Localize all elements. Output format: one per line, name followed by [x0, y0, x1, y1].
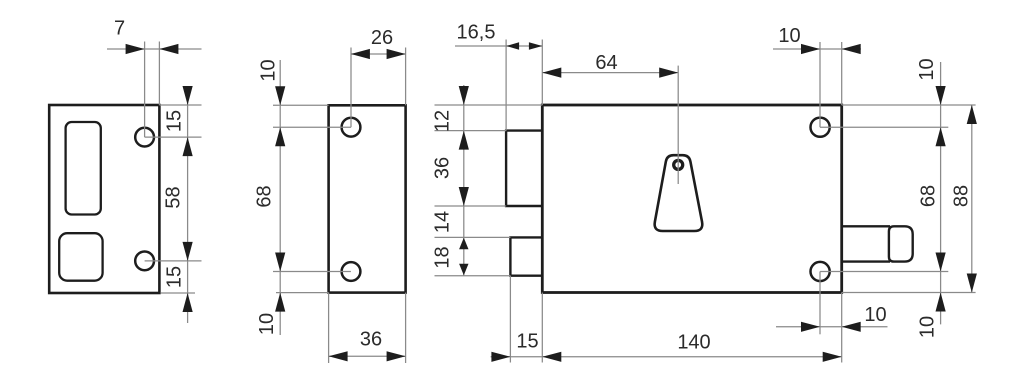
dim 7 dimension line [107, 48, 202, 50]
svg-text:88: 88 [950, 185, 972, 207]
svg-text:7: 7 [114, 18, 125, 40]
dim 7 extension line (hole axis) [144, 42, 146, 138]
latch bolt bottom edge [842, 260, 890, 262]
ext line box2 top edge [435, 236, 511, 238]
keyhole cam (bell shape) [655, 155, 703, 231]
dim 15 top arrowhead (down) [183, 86, 193, 105]
dim 7 arrowhead left [126, 44, 145, 54]
latch bolt head [889, 226, 913, 261]
svg-text:14: 14 [432, 211, 454, 233]
svg-text:12: 12 [432, 110, 454, 132]
dim 12 arrowhead down (case top) [459, 86, 469, 105]
dim 16,5 dimension line with tail [455, 45, 542, 47]
strike plate outline [49, 105, 159, 293]
dim 64 dimension line [542, 72, 678, 74]
dim 36 arrowhead down [459, 187, 469, 206]
svg-text:10: 10 [917, 316, 939, 338]
ext line lower hole centre [145, 260, 202, 262]
dim 64 extension line (cam axis) [677, 66, 679, 184]
svg-text:10: 10 [916, 58, 938, 80]
dim 10 bottom dimension line [776, 326, 888, 328]
dim 26 arrowhead right [387, 49, 406, 59]
follower box lower (left protrusion) [510, 237, 542, 275]
dim 16,5 extension line (box1 left edge) [505, 40, 507, 131]
svg-text:10: 10 [258, 59, 280, 81]
svg-text:36: 36 [432, 157, 454, 179]
svg-text:10: 10 [864, 304, 886, 326]
dim 7 extension line (plate right edge) [158, 42, 160, 106]
ext line case top edge [842, 104, 976, 106]
dim 36 dimension line [329, 355, 406, 357]
svg-text:58: 58 [163, 186, 185, 208]
ext line case bottom-right hole centre [820, 271, 948, 273]
svg-text:15: 15 [164, 110, 186, 132]
dim 68 arrowhead up [936, 127, 946, 146]
left chain dimension line (12/36/14/18) [463, 85, 465, 276]
dim 36 arrowhead left [329, 351, 348, 361]
dim 36 extension line left [328, 293, 330, 363]
dim 10 top-right extension line (hole axis) [819, 42, 821, 127]
svg-text:36: 36 [360, 329, 382, 351]
dim 16,5 arrowhead right [529, 42, 542, 49]
svg-text:64: 64 [595, 52, 617, 74]
dim 15 / 140 shared arrowhead [542, 352, 561, 362]
right inner chain dimension line [940, 62, 942, 324]
svg-text:10: 10 [778, 25, 800, 47]
dim 18 arrowhead down [459, 264, 468, 276]
dim 18 arrowhead up [459, 238, 468, 250]
dim 26 arrowhead left [351, 49, 370, 59]
dim 10 top-right dimension line [773, 48, 861, 50]
follower box upper (left protrusion) [506, 131, 542, 206]
dim 10 bottom arrowhead (up) [275, 293, 285, 312]
dim 88 arrowhead up [967, 105, 977, 124]
svg-text:26: 26 [371, 27, 393, 49]
case top-right mounting hole [811, 118, 830, 137]
ext line side plate lower hole centre [273, 271, 351, 273]
side plate lower hole [342, 262, 361, 281]
dim 15 bottom arrowhead (up) [183, 293, 193, 312]
ext line case top-right hole centre [820, 126, 948, 128]
left chain dimension line [279, 60, 281, 335]
dim 36 arrowhead right [387, 351, 406, 361]
dim 64 arrowhead right [659, 68, 678, 78]
ext line plate bottom edge [161, 292, 195, 294]
dim 10 bottom arrowhead left [801, 322, 820, 332]
bottom dimension line 15 and 140 [491, 356, 842, 358]
ext line box2 bottom edge [435, 275, 511, 277]
svg-text:18: 18 [432, 246, 454, 268]
case bottom-right mounting hole [811, 262, 830, 281]
svg-text:15: 15 [516, 331, 538, 353]
svg-text:68: 68 [254, 185, 276, 207]
dim 10 arrowhead down (top edge) [936, 86, 946, 105]
ext line side plate bottom edge [276, 292, 329, 294]
dim 26 extension line (plate right edge) [405, 48, 407, 106]
ext line plate top edge [159, 104, 201, 106]
strike plate upper mounting hole [135, 128, 154, 147]
dim 68 arrowhead up [275, 127, 285, 146]
dim 10 top arrowhead (down) [275, 86, 285, 105]
dim 10 bottom extension line (hole axis) [819, 272, 821, 335]
dim 15 arrowhead left [491, 352, 510, 362]
cam pivot ring [674, 160, 683, 169]
dim 68 arrowhead down [275, 253, 285, 272]
dim 15 extension line (box2 left edge) [509, 276, 511, 363]
dim 10 top-right arrowhead right [842, 44, 861, 54]
dim 7 arrowhead right [159, 44, 178, 54]
svg-text:140: 140 [677, 332, 710, 354]
ext line box1 bottom edge [435, 205, 507, 207]
ext line upper hole centre [145, 136, 202, 138]
dim 88 dimension line [971, 105, 973, 293]
dim 10 bottom arrowhead right [842, 322, 861, 332]
latch bolt top edge [842, 225, 890, 227]
ext line case top edge (left) [435, 104, 543, 106]
strike plate slot cutout (top) [66, 122, 101, 215]
lock case outline [542, 105, 841, 293]
dim 58 arrowhead up [183, 137, 193, 156]
dim 36 extension line right [405, 293, 407, 363]
dim 58 arrowhead down [183, 242, 193, 261]
svg-text:16,5: 16,5 [457, 22, 496, 44]
svg-text:15: 15 [164, 266, 186, 288]
dim 10 top-right extension line (case right edge) [841, 42, 843, 105]
ext line side plate upper hole centre [273, 126, 351, 128]
dim 68 arrowhead down [936, 253, 946, 272]
svg-text:10: 10 [256, 313, 278, 335]
dim 140 arrowhead right [823, 352, 842, 362]
dim 26 dimension line [351, 53, 406, 55]
right chain dimension line [187, 87, 189, 323]
strike plate square cutout (bottom) [59, 233, 102, 281]
dim 10 top-right arrowhead left [801, 44, 820, 54]
dim 88 arrowhead down [967, 274, 977, 293]
side plate outline [329, 105, 406, 292]
dim 10 arrowhead up (bottom edge) [936, 293, 946, 312]
ext line case bottom edge [842, 292, 976, 294]
ext line box1 top edge [435, 130, 507, 132]
dim 140 extension line (case right edge) [841, 293, 843, 363]
ext line side plate top edge [273, 104, 329, 106]
svg-text:68: 68 [917, 185, 939, 207]
side plate upper hole [342, 118, 361, 137]
dim 15 / 140 extension line (case left edge) [541, 293, 543, 363]
dim 16,5 arrowhead left [506, 42, 519, 49]
dim 26 extension line (hole axis) [350, 48, 352, 128]
dim 64 arrowhead left [542, 68, 561, 78]
dim 16,5 / 64 extension line (case left edge) [541, 40, 543, 106]
strike plate lower mounting hole [135, 252, 154, 271]
dim 36 arrowhead up [459, 131, 469, 150]
